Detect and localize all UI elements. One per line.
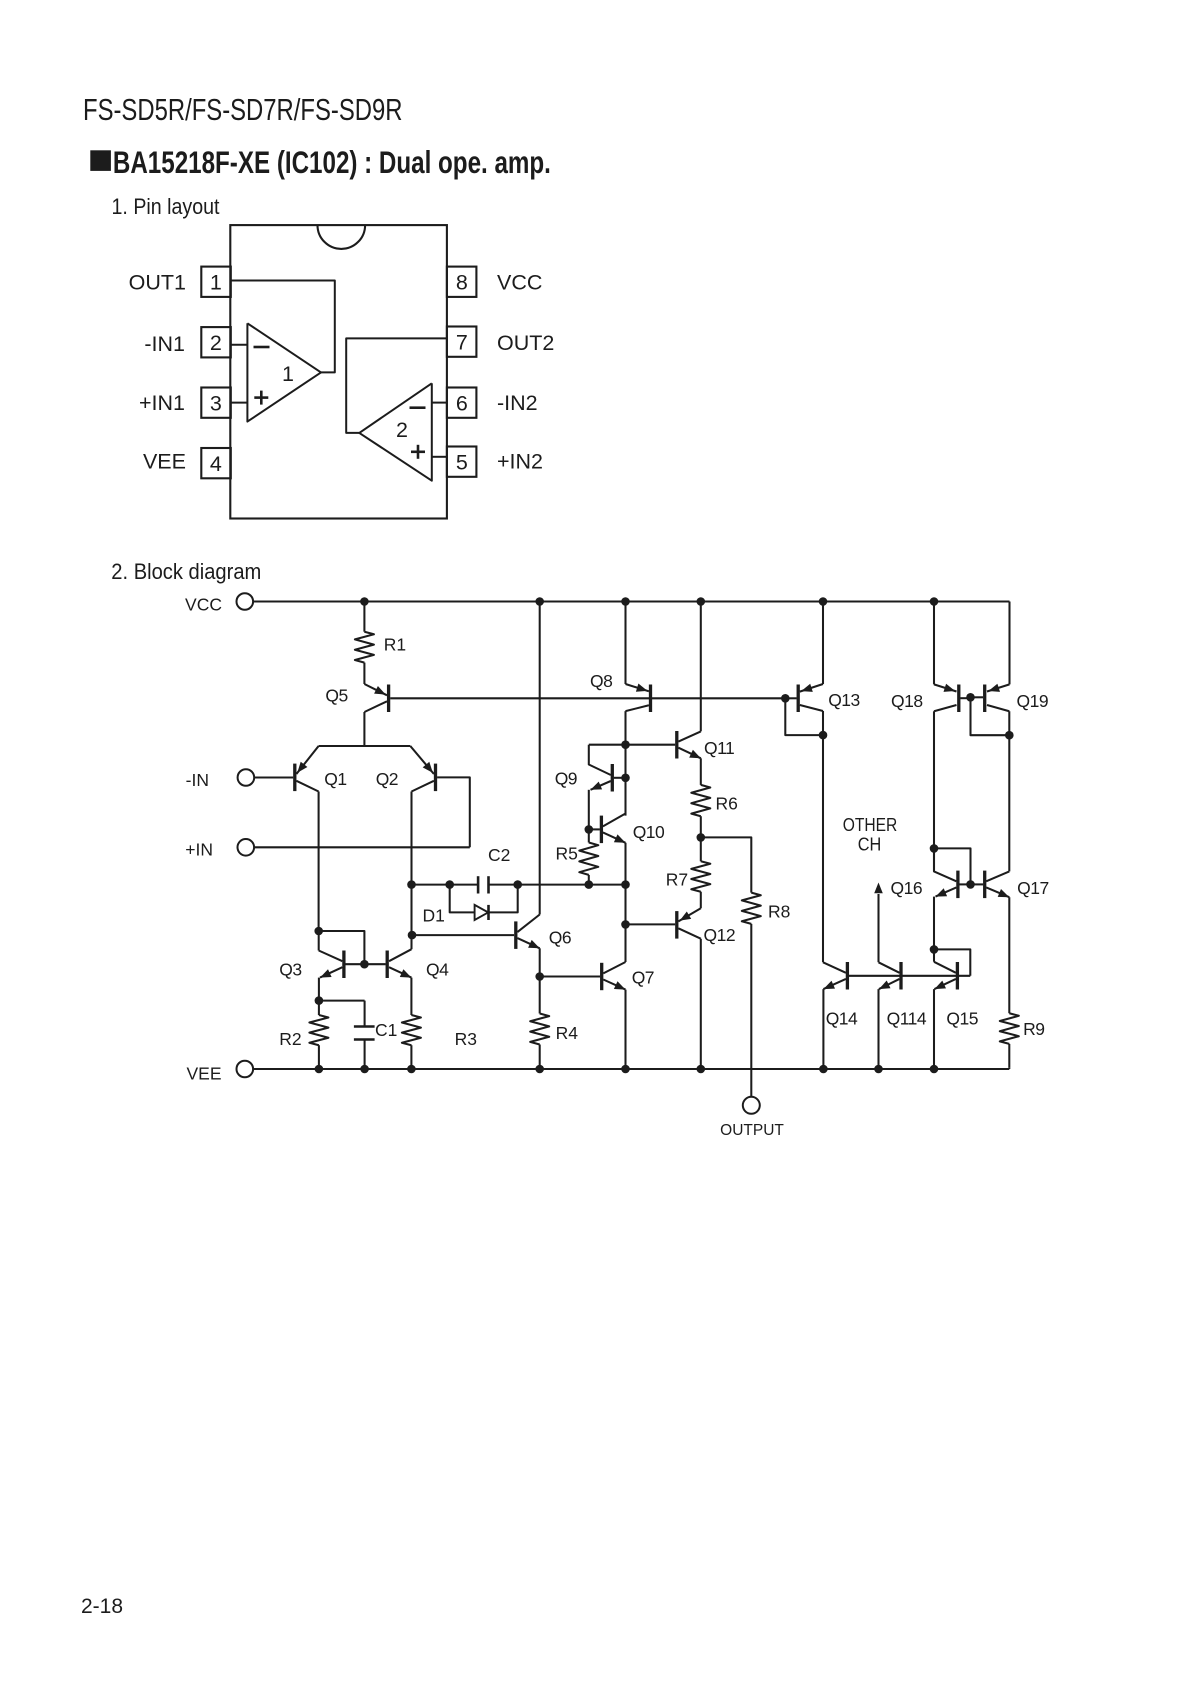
transistor Q13 <box>787 684 860 712</box>
junction Q3 emitter / R2 / C1 <box>315 996 324 1005</box>
wire Q13 emitter from VCC <box>822 602 824 685</box>
wire diff-pair emitter bus <box>319 745 411 747</box>
transistor Q8 <box>590 671 651 712</box>
junction Q3/Q4 base node <box>360 960 369 969</box>
svg-text:-IN1: -IN1 <box>144 332 185 356</box>
wire Q15 emitter to VEE <box>933 989 935 1069</box>
junction Q9-emitter/Q10-base/R5 <box>585 825 594 834</box>
transistor Q114 <box>879 962 927 1029</box>
svg-text:Q1: Q1 <box>324 769 346 789</box>
wire Q8 emitter from VCC <box>624 602 626 685</box>
transistor Q17 <box>973 871 1049 899</box>
OUTPUT terminal <box>720 1097 784 1139</box>
svg-text:1: 1 <box>282 362 294 386</box>
wire Q9 emitter down <box>588 790 590 830</box>
wire C2-D1 node line left <box>412 884 479 886</box>
svg-text:2: 2 <box>210 331 222 355</box>
wire pin7 to op-amp2 output (feedback path) <box>346 338 447 433</box>
svg-text:2. Block diagram: 2. Block diagram <box>111 559 261 584</box>
wire Q1 collector down <box>318 792 320 932</box>
svg-text:Q3: Q3 <box>279 960 301 980</box>
subheading 2. Block diagram <box>111 559 261 584</box>
transistor Q14 <box>823 962 858 1029</box>
transistor Q11 <box>677 731 734 759</box>
svg-text:D1: D1 <box>423 906 445 926</box>
diode D1 <box>423 885 518 926</box>
wire Q3 emitter down <box>318 978 320 1001</box>
junction Q12/VEE <box>697 1065 706 1074</box>
capacitor C2 <box>478 845 510 894</box>
pin 6 box pin number 6 <box>447 388 477 418</box>
wire Q14-Q114-Q15 base rail <box>849 975 970 977</box>
VEE terminal <box>186 1061 253 1084</box>
Q11 collector bus from VCC <box>700 602 702 732</box>
wire R8 branch <box>701 837 752 892</box>
junction VCC/Q6-collector bus <box>535 597 544 606</box>
svg-text:R4: R4 <box>556 1023 579 1043</box>
svg-text:Q13: Q13 <box>828 690 860 710</box>
svg-text:R3: R3 <box>455 1029 477 1049</box>
junction R4/VEE <box>535 1065 544 1074</box>
resistor R9 <box>1000 1013 1045 1069</box>
wire pin6 to op-amp2 inverting input <box>432 402 447 404</box>
junction R3/VEE <box>407 1065 416 1074</box>
transistor Q18 <box>891 684 969 712</box>
wire Q114 emitter to VEE <box>877 989 879 1069</box>
svg-text:1: 1 <box>210 270 222 294</box>
svg-text:4: 4 <box>210 452 222 476</box>
wire Q114 collector with other-ch arrow <box>874 878 922 962</box>
wire pin5 to op-amp2 non-inverting input <box>432 456 447 458</box>
pin label OUT1 <box>129 271 186 295</box>
subheading 1. Pin layout <box>112 194 220 219</box>
svg-text:C2: C2 <box>488 845 510 865</box>
svg-text:Q5: Q5 <box>325 686 347 706</box>
svg-text:6: 6 <box>456 391 468 415</box>
svg-text:7: 7 <box>456 330 468 354</box>
svg-text:Q12: Q12 <box>704 925 736 945</box>
junction VCC/Q11-collector bus <box>697 597 706 606</box>
wire Q18 emitter from VCC <box>933 602 935 685</box>
op-amp 1 triangle <box>247 323 321 421</box>
wire Q8-collector node line <box>589 744 675 746</box>
svg-text:R1: R1 <box>384 635 406 655</box>
pin 3 box pin number 3 <box>201 388 231 418</box>
wire Q19 collector down <box>1008 711 1010 871</box>
junction Q18/Q19 base node <box>966 693 975 702</box>
svg-text:CH: CH <box>858 833 882 854</box>
wire Q12 base line <box>626 923 676 925</box>
junction Q14/VEE <box>819 1065 828 1074</box>
transistor Q15 <box>934 962 978 1029</box>
section heading BA15218F-XE (IC102) : Dual ope. amp. <box>90 144 551 180</box>
+IN terminal <box>185 839 254 860</box>
pin label +IN2 <box>497 450 543 474</box>
transistor Q6 <box>516 915 571 949</box>
wire Q6 emitter down <box>539 948 541 976</box>
svg-text:-IN2: -IN2 <box>497 391 538 415</box>
transistor Q12 <box>677 908 735 945</box>
wire Q6 base <box>412 934 514 936</box>
wire Q18-Q19 base tie <box>971 697 1010 735</box>
svg-text:Q10: Q10 <box>633 822 665 842</box>
wire Q16 emitter down <box>933 897 935 950</box>
wire Q18 collector down <box>933 711 935 871</box>
junction Q15/VEE <box>930 1065 939 1074</box>
svg-text:2-18: 2-18 <box>81 1595 123 1618</box>
pin label VCC (pin 8) <box>497 271 542 295</box>
svg-text:Q2: Q2 <box>376 769 398 789</box>
junction main vertical / Q12 base line <box>621 920 630 929</box>
svg-text:R2: R2 <box>279 1029 301 1049</box>
junction Q18-collector/Q16 <box>930 844 939 853</box>
wire Q13 base-collector tie <box>785 698 823 735</box>
svg-text:BA15218F-XE (IC102) : Dual ope: BA15218F-XE (IC102) : Dual ope. amp. <box>113 144 551 180</box>
junction VCC/Q18-emitter <box>930 597 939 606</box>
transistor Q4 <box>387 949 449 979</box>
junction Q13 collector tie <box>819 731 828 740</box>
op-amp 2 plus input symbol <box>411 445 425 459</box>
Q6 collector bus from VCC <box>539 602 541 915</box>
wire Q5 collector to diff pair <box>363 712 365 746</box>
VCC rail wire <box>253 600 1009 602</box>
junction R6/R7/R8 node <box>697 833 706 842</box>
junction Q16/Q17 base node <box>966 880 975 889</box>
junction Q114/VEE <box>874 1065 883 1074</box>
pin 8 box pin number 8 <box>447 267 477 297</box>
svg-text:R8: R8 <box>768 901 790 921</box>
base rail wire Q5/Q8/Q13 <box>390 697 785 699</box>
wire Q1 collector to Q3-Q4 bases <box>319 931 365 964</box>
wire Q16 base tie <box>934 848 971 884</box>
svg-text:R9: R9 <box>1023 1019 1044 1039</box>
label OTHER CH <box>843 814 898 854</box>
svg-text:Q18: Q18 <box>891 691 923 711</box>
wire R1 to Q5 emitter <box>363 663 365 684</box>
junction Q7-emitter/VEE <box>621 1065 630 1074</box>
wire VCC to R1 <box>363 602 365 632</box>
wire Q19 emitter from VCC <box>1008 602 1010 685</box>
junction C1/VEE <box>360 1065 369 1074</box>
VCC terminal <box>185 593 253 614</box>
svg-text:1. Pin layout: 1. Pin layout <box>112 194 220 219</box>
op-amp 2 triangle <box>359 383 432 480</box>
pin label -IN2 <box>497 391 538 415</box>
svg-text:Q6: Q6 <box>549 928 571 948</box>
transistor Q9 <box>555 745 623 792</box>
resistor R5 <box>556 829 599 884</box>
resistor R3 <box>402 1015 477 1069</box>
junction main vertical / Q8-collector node line <box>621 740 630 749</box>
svg-text:VCC: VCC <box>497 271 542 295</box>
pin label -IN1 <box>144 332 185 356</box>
op-amp 2 minus input symbol <box>410 406 426 409</box>
transistor Q2 <box>376 746 436 792</box>
junction Q1 collector / Q3 <box>314 927 323 936</box>
junction Q16-emitter/Q15-collector/base loop <box>930 945 939 954</box>
wire Q2 base loop to +IN <box>437 777 470 847</box>
svg-text:R5: R5 <box>556 844 578 864</box>
svg-text:R7: R7 <box>666 869 688 889</box>
page number 2-18 <box>81 1595 123 1618</box>
resistor R1 <box>355 632 406 663</box>
wire Q7 emitter to VEE <box>624 990 626 1069</box>
svg-text:Q4: Q4 <box>426 960 449 980</box>
pin 7 box pin number 7 <box>447 327 477 357</box>
junction Q6-emitter/Q7-base/R4 <box>535 972 544 981</box>
wire Q3-Q4 base link <box>366 963 386 965</box>
pin label +IN1 <box>139 391 185 415</box>
wire pin2 to op-amp1 inverting input <box>230 344 247 346</box>
pin 1 box pin number 1 <box>201 267 231 297</box>
transistor Q10 <box>589 814 665 844</box>
wire pin1 to op-amp1 output (feedback path) <box>230 281 334 373</box>
wire mirror base rail loop up <box>934 949 970 975</box>
svg-text:Q8: Q8 <box>590 671 612 691</box>
svg-text:FS-SD5R/FS-SD7R/FS-SD9R: FS-SD5R/FS-SD7R/FS-SD9R <box>83 93 403 127</box>
junction node/R5 <box>585 880 594 889</box>
junction VCC/R1 <box>360 597 369 606</box>
wire Q4 emitter to R3 <box>410 978 412 1015</box>
pin 2 box pin number 2 <box>201 327 231 357</box>
transistor Q3 <box>279 931 362 980</box>
svg-text:Q7: Q7 <box>632 968 654 988</box>
-IN terminal <box>186 769 255 790</box>
wire Q14 emitter to VEE <box>822 989 824 1069</box>
transistor Q16 <box>934 848 968 898</box>
pin 5 box pin number 5 <box>447 447 477 477</box>
junction node/D1 anode <box>445 880 454 889</box>
op-amp 1 minus input symbol <box>254 346 270 349</box>
page title FS-SD5R/FS-SD7R/FS-SD9R <box>83 93 403 127</box>
junction node/main vertical <box>621 880 630 889</box>
VEE rail wire <box>253 1068 1009 1070</box>
wire Q13 collector down to Q14 <box>822 711 824 962</box>
op-amp 1 plus input symbol <box>254 391 268 405</box>
IC package body U-IC102 <box>230 225 447 518</box>
svg-text:OUT1: OUT1 <box>129 271 186 295</box>
resistor R7 <box>666 837 711 908</box>
svg-text:VEE: VEE <box>186 1064 221 1084</box>
svg-text:+IN2: +IN2 <box>497 450 543 474</box>
svg-text:Q114: Q114 <box>887 1009 927 1029</box>
pin label OUT2 <box>497 331 554 355</box>
svg-text:R6: R6 <box>716 794 738 814</box>
transistor Q7 <box>602 962 654 990</box>
svg-text:5: 5 <box>456 450 468 474</box>
svg-text:Q17: Q17 <box>1017 878 1049 898</box>
resistor R8 <box>742 893 791 924</box>
transistor Q5 <box>325 684 388 712</box>
svg-text:2: 2 <box>396 418 408 442</box>
wire main vertical upper <box>624 711 626 816</box>
junction Q2-collector/C2-D1 node <box>407 880 416 889</box>
junction node/D1 cathode <box>513 880 522 889</box>
svg-text:OUT2: OUT2 <box>497 331 554 355</box>
capacitor C1 <box>319 1001 397 1069</box>
wire -IN to Q1 base <box>254 776 293 778</box>
svg-text:Q9: Q9 <box>555 769 577 789</box>
junction base rail / Q13 base <box>781 694 790 703</box>
wire Q15 collector up <box>933 949 935 961</box>
resistor R2 <box>279 1001 328 1069</box>
svg-text:+IN1: +IN1 <box>139 391 185 415</box>
junction VCC/Q13-emitter <box>819 597 828 606</box>
wire C2-D1 node line right <box>489 884 626 886</box>
junction main vertical / Q9 base <box>621 774 630 783</box>
svg-text:Q16: Q16 <box>891 878 923 898</box>
junction Q19 collector tie <box>1005 731 1014 740</box>
wire Q11 emitter to R6 <box>700 758 702 785</box>
wire pin3 to op-amp1 non-inverting input <box>230 402 247 404</box>
wire R8 to OUTPUT <box>750 924 752 1097</box>
pin label VEE (pin 4) <box>143 450 186 474</box>
svg-text:3: 3 <box>210 391 222 415</box>
junction R2/VEE <box>315 1065 324 1074</box>
wire Q12 collector to VEE <box>700 939 702 1069</box>
svg-text:Q11: Q11 <box>704 738 734 758</box>
wire R4 top <box>539 977 541 1014</box>
svg-text:OTHER: OTHER <box>843 814 898 835</box>
svg-text:VEE: VEE <box>143 450 186 474</box>
wire Q2 collector down <box>410 792 412 950</box>
svg-text:Q19: Q19 <box>1017 691 1049 711</box>
svg-text:VCC: VCC <box>185 595 222 615</box>
svg-text:Q14: Q14 <box>826 1009 858 1029</box>
transistor Q1 <box>295 746 347 792</box>
junction VCC/Q8-emitter <box>621 597 630 606</box>
svg-text:Q15: Q15 <box>946 1009 978 1029</box>
junction Q2-collector/Q6 base <box>408 931 417 940</box>
pin 4 box pin number 4 <box>201 448 231 478</box>
wire main vertical lower <box>624 843 626 962</box>
wire +IN to Q2 base corner <box>254 846 470 848</box>
svg-text:+IN: +IN <box>185 840 213 860</box>
resistor R4 <box>530 1014 578 1070</box>
svg-text:C1: C1 <box>375 1020 397 1040</box>
resistor R6 <box>691 785 738 838</box>
svg-text:-IN: -IN <box>186 770 209 790</box>
svg-text:OUTPUT: OUTPUT <box>720 1122 784 1139</box>
wire Q17 emitter to R9 <box>1008 897 1010 1013</box>
svg-text:8: 8 <box>456 270 468 294</box>
wire Q6 emitter to Q7 base <box>540 975 600 977</box>
transistor Q19 <box>972 684 1048 712</box>
